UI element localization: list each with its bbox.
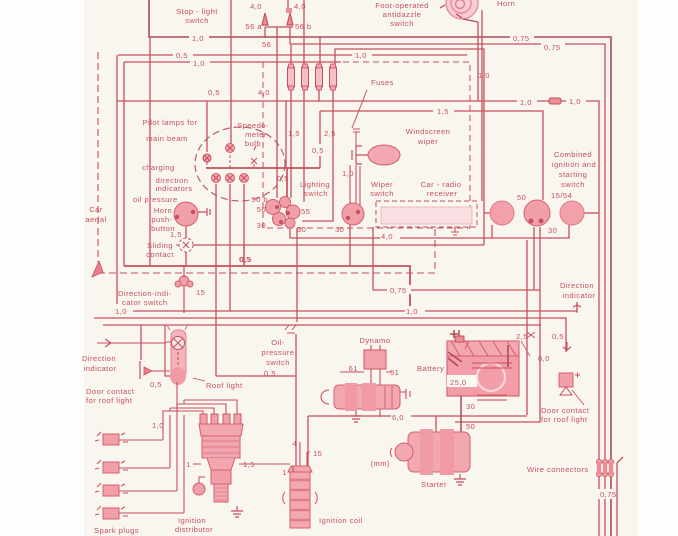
svg-text:0,5: 0,5: [312, 146, 324, 155]
indicator bulb 3: [240, 174, 249, 183]
wire 6,0 ignition to starter: [455, 227, 540, 422]
svg-text:Starter: Starter: [421, 480, 447, 489]
svg-text:pressure: pressure: [261, 348, 294, 357]
wire 4,0 bus under radio: [290, 225, 569, 238]
wire fuse1 to right bus 0,75: [291, 44, 605, 536]
svg-text:Combined: Combined: [554, 150, 592, 159]
svg-text:Dynamo: Dynamo: [360, 336, 391, 345]
svg-text:starting: starting: [559, 170, 588, 179]
oil pressure switch symbol: [285, 325, 296, 333]
wire fuse4 2,5 drop: [302, 89, 333, 221]
wire horn drop pair: [478, 10, 482, 201]
svg-text:Door contact: Door contact: [86, 387, 135, 396]
svg-text:Lighting: Lighting: [300, 180, 330, 189]
svg-text:Wire connectors: Wire connectors: [527, 465, 589, 474]
wire horn button to sliding contact: [185, 226, 187, 266]
svg-text:Car - radio: Car - radio: [421, 180, 462, 189]
wire coil 15 riser: [307, 416, 309, 468]
wire 2,5 ignition to starter line: [526, 240, 528, 415]
car aerial dashed wire: [97, 52, 99, 262]
svg-text:Foot-operated: Foot-operated: [375, 1, 429, 10]
svg-text:Door contact: Door contact: [541, 406, 590, 415]
roof light: [152, 324, 188, 385]
fuses box dashed: [263, 62, 470, 228]
ignition switch contact 30: [560, 201, 584, 225]
wire 0,5 left bus: [118, 54, 467, 56]
svg-text:50: 50: [466, 422, 475, 431]
svg-text:oil pressure: oil pressure: [133, 195, 178, 204]
starter: [370, 429, 470, 475]
wire dynamo to starter 6,0: [308, 416, 527, 432]
svg-text:1,0: 1,0: [406, 307, 418, 316]
spark plug 3: [95, 483, 177, 496]
roof light pointer: [193, 378, 205, 381]
pilot lamp right: [251, 146, 257, 164]
scan washes: [90, 0, 619, 528]
wiper switch vertical wires: [350, 165, 360, 205]
svg-text:56: 56: [262, 40, 271, 49]
svg-text:30: 30: [466, 402, 475, 411]
svg-text:for roof light: for roof light: [541, 415, 588, 424]
wire 1,5 lighting drop: [285, 101, 287, 168]
svg-text:indicator: indicator: [563, 291, 596, 300]
direction indicator right arrow: [573, 305, 581, 313]
svg-text:meter: meter: [245, 130, 267, 139]
svg-text:25,0: 25,0: [450, 378, 467, 387]
svg-text:distributor: distributor: [175, 525, 213, 534]
svg-text:aerial: aerial: [85, 215, 106, 224]
svg-text:30: 30: [548, 226, 557, 235]
wire 1,0 left bus: [124, 61, 341, 63]
wire oil switch to coil 4: [295, 334, 297, 466]
wire sliding contact line: [193, 245, 484, 266]
svg-text:Wiper: Wiper: [371, 180, 393, 189]
wire gauge bus riser: [319, 111, 321, 168]
svg-text:2,5: 2,5: [516, 332, 528, 341]
svg-text:50: 50: [517, 193, 526, 202]
ignition switch contact 50: [490, 201, 514, 225]
svg-text:indicator: indicator: [84, 364, 117, 373]
distributor terminal wires: [193, 463, 290, 465]
wire radio to 0,75: [372, 227, 374, 290]
wire 0,5 oil pressure line: [216, 375, 296, 377]
wire 0,75 battery: [373, 289, 540, 291]
svg-text:1,5: 1,5: [170, 230, 182, 239]
fuse F3: [316, 64, 323, 90]
battery wires: [459, 330, 461, 432]
svg-text:(mm): (mm): [370, 459, 390, 468]
svg-text:1,5: 1,5: [437, 107, 449, 116]
svg-text:Pilot lamps for: Pilot lamps for: [143, 118, 198, 127]
roof light bottom feed: [165, 325, 170, 376]
svg-text:Ignition: Ignition: [178, 516, 206, 525]
spark plug 2: [95, 460, 170, 473]
svg-text:Stop - light: Stop - light: [176, 7, 218, 16]
horn: [440, 0, 478, 22]
wire ignition 30 to bus: [584, 212, 599, 214]
svg-text:0,5: 0,5: [264, 369, 276, 378]
wire inner box drop: [149, 38, 151, 266]
wire pilot lamp left drop: [206, 101, 208, 152]
svg-text:Speedo-: Speedo-: [237, 121, 269, 130]
svg-text:Horn: Horn: [154, 206, 172, 215]
svg-text:charging: charging: [142, 163, 175, 172]
fuse F1: [288, 64, 295, 90]
wire 56a stub left: [264, 27, 266, 38]
svg-text:bulb: bulb: [245, 139, 261, 148]
svg-text:for roof light: for roof light: [86, 396, 133, 405]
wire stoplight vertical 0,5: [230, 0, 232, 144]
dynamo regulator: [364, 350, 386, 369]
svg-text:1,0: 1,0: [569, 97, 581, 106]
svg-text:30: 30: [335, 225, 344, 234]
svg-text:wiper: wiper: [417, 137, 438, 146]
svg-text:Spark plugs: Spark plugs: [94, 526, 139, 535]
door contact right arrow: [563, 342, 571, 350]
svg-text:56: 56: [257, 205, 266, 214]
wire left vertical 1,0 drop: [123, 62, 125, 266]
svg-text:switch: switch: [266, 358, 290, 367]
svg-text:4,0: 4,0: [294, 2, 306, 11]
battery: [447, 330, 535, 400]
wire 56a to top: [287, 0, 289, 8]
wire left vertical 0,5 drop: [116, 55, 118, 311]
wire connector on 1,0 line: [545, 98, 565, 104]
svg-text:4,0: 4,0: [250, 2, 262, 11]
svg-text:0,5: 0,5: [240, 255, 252, 264]
svg-text:1,0: 1,0: [478, 71, 490, 80]
svg-text:0,5: 0,5: [208, 88, 220, 97]
wire gauge bus: [206, 168, 320, 198]
svg-text:50 b: 50 b: [251, 195, 268, 204]
wire 1,0 fusebox to right bus: [117, 101, 599, 536]
svg-text:1,0: 1,0: [152, 421, 164, 430]
svg-text:Roof light: Roof light: [206, 381, 243, 390]
distributor cap wires: [163, 400, 237, 415]
svg-text:switch: switch: [370, 189, 394, 198]
svg-text:30: 30: [257, 221, 266, 230]
wire fuse3 down: [318, 89, 320, 101]
wire 1,0 long mid: [117, 302, 577, 311]
svg-text:1: 1: [282, 468, 287, 477]
svg-text:switch: switch: [185, 16, 209, 25]
svg-text:switch: switch: [304, 189, 328, 198]
wire fuse2 down: [303, 89, 305, 202]
horn push button: [174, 202, 210, 226]
sliding contact: [176, 238, 196, 252]
svg-text:Direction-indi-: Direction-indi-: [118, 289, 172, 298]
svg-text:Car: Car: [89, 205, 103, 214]
svg-text:6,0: 6,0: [538, 354, 550, 363]
wire ignition terminal down short: [533, 227, 535, 290]
svg-text:4: 4: [292, 439, 297, 448]
spark plug 4: [95, 506, 184, 519]
wire connector right 2: [602, 459, 607, 476]
svg-text:1,5: 1,5: [243, 460, 255, 469]
svg-text:1,0: 1,0: [342, 169, 354, 178]
wire fuse3 tap: [319, 37, 321, 64]
dynamo ground: [350, 411, 362, 422]
svg-text:Sliding: Sliding: [147, 241, 173, 250]
car aerial arrow: [92, 261, 103, 277]
direction indicator left arrow: [97, 339, 166, 347]
svg-text:0,75: 0,75: [600, 490, 617, 499]
svg-text:1,0: 1,0: [115, 307, 127, 316]
wire connector right 1: [596, 459, 601, 476]
wiper motor: [352, 129, 400, 165]
svg-text:0,5: 0,5: [150, 380, 162, 389]
svg-text:receiver: receiver: [427, 189, 458, 198]
wire door contact left drop: [140, 325, 142, 360]
wire connector right 3: [608, 459, 613, 476]
radio ground: [451, 227, 459, 235]
svg-text:Fuses: Fuses: [371, 78, 394, 87]
svg-text:1,0: 1,0: [192, 34, 204, 43]
coil wire 15 riser: [307, 452, 310, 466]
wire wiper switch down: [349, 225, 351, 266]
fuse F4: [330, 64, 337, 90]
label halos: [113, 33, 623, 499]
wire gauge charge bulb down: [229, 184, 231, 311]
svg-text:6,0: 6,0: [392, 413, 404, 422]
wire thick mid 1,0: [124, 266, 410, 313]
svg-text:15/54: 15/54: [551, 191, 572, 200]
svg-text:switch: switch: [390, 19, 414, 28]
wire lighting 30 to oil switch: [296, 228, 298, 322]
car radio receiver box: [376, 201, 477, 227]
antidazzle switch symbol 56a/56b: [262, 8, 293, 27]
svg-text:2,5: 2,5: [324, 129, 336, 138]
label 25,0: [447, 375, 477, 387]
svg-text:1,0: 1,0: [520, 98, 532, 107]
svg-text:Direction: Direction: [560, 281, 594, 290]
svg-text:Windscreen: Windscreen: [406, 127, 451, 136]
svg-text:contact: contact: [146, 250, 174, 259]
speedometer bulb top: [226, 144, 235, 153]
door contact pointer: [572, 390, 584, 405]
fuse F2: [302, 64, 309, 90]
svg-text:0,75: 0,75: [544, 43, 561, 52]
dynamo body: [321, 383, 410, 411]
door contact right: [559, 373, 580, 396]
spark plug wires risers: [163, 382, 184, 513]
door contact left symbol: [140, 361, 170, 379]
dynamo wires: [340, 345, 392, 417]
ignition switch contact 15/54: [524, 200, 550, 226]
fuses pointer line: [352, 90, 367, 128]
wire mid to door contact: [94, 318, 566, 352]
svg-text:cator switch: cator switch: [122, 298, 168, 307]
svg-text:Battery: Battery: [417, 364, 444, 373]
distributor ground: [231, 506, 243, 517]
radio antenna dashed drop: [99, 229, 435, 273]
svg-text:4,0: 4,0: [258, 88, 270, 97]
pilot lamp left: [203, 154, 211, 162]
lighting switch cluster: [266, 197, 301, 229]
svg-text:switch: switch: [561, 180, 585, 189]
svg-text:0,75: 0,75: [513, 34, 530, 43]
wire gauge indicator bulb down: [243, 184, 245, 266]
speedometer dashed circle: [195, 127, 285, 201]
ignition coil: [283, 442, 318, 528]
svg-text:30: 30: [297, 225, 306, 234]
spark plug 1: [95, 432, 163, 445]
svg-text:55: 55: [301, 207, 310, 216]
svg-text:1,0: 1,0: [355, 51, 367, 60]
wire fuse4 over to ignition feed: [335, 49, 490, 245]
wiper switch: [342, 203, 364, 225]
svg-text:0,5: 0,5: [552, 332, 564, 341]
charging bulb: [212, 174, 221, 183]
svg-text:1,0: 1,0: [193, 59, 205, 68]
indicator bulb 2: [226, 174, 235, 183]
wire 56a stub right: [289, 27, 291, 44]
wire fuse2 to top: [303, 0, 305, 66]
ignition distributor: [193, 414, 243, 502]
svg-text:15: 15: [196, 288, 205, 297]
svg-text:0,75: 0,75: [390, 286, 407, 295]
wire 4th bus segment: [617, 457, 623, 536]
wire 1,5 gauge bus to ignition: [320, 111, 543, 200]
wire mid to 6,0 junction: [103, 324, 541, 326]
svg-text:main beam: main beam: [146, 134, 188, 143]
svg-text:0,5: 0,5: [176, 51, 188, 60]
svg-text:56 a: 56 a: [245, 22, 262, 31]
wire gauge oil bulb down: [215, 184, 217, 376]
svg-text:Horn: Horn: [497, 0, 515, 8]
svg-text:15: 15: [313, 449, 322, 458]
svg-text:indicators: indicators: [156, 184, 193, 193]
svg-text:4,0: 4,0: [381, 232, 393, 241]
svg-text:1: 1: [186, 460, 191, 469]
svg-text:push-: push-: [151, 215, 172, 224]
svg-text:1,5: 1,5: [288, 129, 300, 138]
svg-text:0,5: 0,5: [277, 174, 289, 183]
svg-text:Direction: Direction: [82, 354, 116, 363]
wire top feed 1,0 to right bus: [149, 0, 611, 536]
svg-text:Oil-: Oil-: [271, 338, 285, 347]
gauge internal stems: [207, 155, 254, 168]
starter ground: [454, 474, 466, 485]
svg-text:56 b: 56 b: [295, 22, 312, 31]
svg-text:antidazzle: antidazzle: [383, 10, 422, 19]
svg-text:Ignition coil: Ignition coil: [319, 516, 363, 525]
svg-text:ignition and: ignition and: [552, 160, 596, 169]
wire fuse1 down: [290, 89, 292, 198]
direction indicator switch: [175, 266, 193, 313]
wire 56 vertical 4,0: [276, 27, 278, 198]
